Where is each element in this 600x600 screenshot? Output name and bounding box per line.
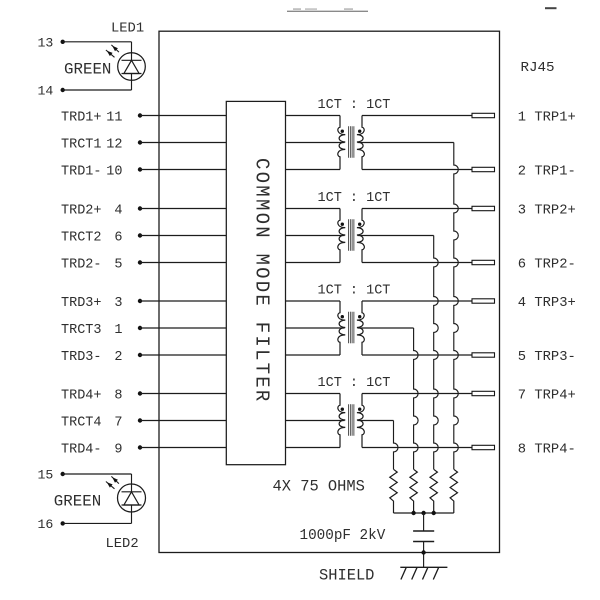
- transformer T4 secondary winding: [357, 394, 364, 448]
- RJ45 module outline box: [159, 31, 500, 552]
- label 1CT : 1CT (T2): [318, 191, 391, 206]
- wire LED1 to pin 14: [63, 80, 132, 90]
- pin label 7 TRP4+: [518, 389, 576, 404]
- T3 secondary phase dot: [358, 315, 361, 318]
- bus wire T1 tap down to resistor (with hops): [454, 143, 459, 470]
- svg-text:1CT : 1CT: 1CT : 1CT: [318, 376, 391, 391]
- wire TRCT1 to filter box: [140, 142, 226, 144]
- pin TRD4- 9 label: [61, 442, 123, 457]
- wire capacitor to shield node: [423, 542, 425, 568]
- wire pin 15 to LED2: [63, 474, 132, 484]
- svg-text:14: 14: [38, 84, 54, 99]
- svg-text:5: 5: [114, 257, 122, 272]
- wire bus to capacitor C1: [423, 513, 425, 531]
- wire T2 secondary to terminal 6: [362, 262, 472, 264]
- junction dot at module box bottom: [421, 550, 425, 554]
- wire filter box to T1 primary bottom: [286, 169, 341, 171]
- svg-text:COMMON MODE FILTER: COMMON MODE FILTER: [251, 158, 273, 404]
- svg-text:10: 10: [106, 164, 122, 179]
- LED LED1 symbol: [118, 53, 146, 81]
- wire TRD2+ to filter box: [140, 208, 226, 210]
- node dot pin 14: [61, 88, 65, 92]
- pin TRCT4 7 label: [61, 415, 123, 430]
- svg-text:LED2: LED2: [106, 537, 139, 552]
- transformer T3 primary winding: [338, 301, 346, 355]
- transformer T4 core: [349, 404, 354, 436]
- node dot pin 6: [138, 233, 142, 237]
- wire T1 secondary to terminal 1: [362, 115, 472, 117]
- label COMMON MODE FILTER (vertical): [251, 158, 273, 404]
- svg-text:8: 8: [114, 388, 122, 403]
- pin label 5 TRP3-: [518, 350, 576, 365]
- pin label 6 TRP2-: [518, 258, 576, 273]
- terminal pad 5: [472, 353, 495, 357]
- label LED1: [111, 21, 144, 36]
- wire T3 secondary to terminal 5: [362, 354, 472, 356]
- T1 secondary phase dot: [358, 130, 361, 133]
- svg-text:13: 13: [38, 35, 54, 50]
- terminal pad 3: [472, 206, 495, 210]
- svg-text:GREEN: GREEN: [64, 61, 111, 79]
- pin TRD2+ 4 label: [61, 203, 123, 218]
- pin TRD4+ 8 label: [61, 388, 123, 403]
- terminal pad 7: [472, 391, 495, 395]
- junction dot bus/R2: [432, 511, 436, 515]
- common mode filter box U1: [226, 101, 285, 464]
- svg-text:TRD2+: TRD2+: [61, 203, 102, 218]
- pin label 8 TRP4-: [518, 443, 576, 458]
- svg-text:11: 11: [106, 110, 122, 125]
- transformer T1 secondary winding: [357, 116, 364, 170]
- label GREEN (LED1): [64, 61, 111, 79]
- label LED2: [106, 537, 139, 552]
- svg-text:TRD4+: TRD4+: [61, 388, 102, 403]
- wire LED2 to pin 16: [63, 512, 132, 523]
- svg-text:TRCT3: TRCT3: [61, 323, 102, 338]
- pin TRD1+ 11 label: [61, 110, 123, 125]
- wire T4 secondary center tap to bus: [358, 420, 394, 422]
- svg-text:8 TRP4-: 8 TRP4-: [518, 443, 576, 458]
- wire T3 secondary to terminal 4: [362, 300, 472, 302]
- svg-text:GREEN: GREEN: [54, 493, 101, 511]
- label 1000pF 2kV: [300, 528, 386, 544]
- faint header text line: [287, 8, 368, 11]
- svg-text:9: 9: [114, 442, 122, 457]
- wire T1 secondary to terminal 2: [362, 169, 472, 171]
- node dot pin 2: [138, 353, 142, 357]
- wire T3 secondary center tap to bus: [358, 327, 414, 329]
- node dot pin 7: [138, 418, 142, 422]
- node dot pin 5: [138, 260, 142, 264]
- wire resistor common bus: [394, 512, 454, 514]
- resistor 75 ohm #4: [390, 469, 397, 513]
- svg-text:7: 7: [114, 415, 122, 430]
- svg-text:4: 4: [114, 203, 122, 218]
- resistor 75 ohm #2: [430, 469, 437, 513]
- svg-text:1 TRP1+: 1 TRP1+: [518, 111, 576, 126]
- wire filter box to T2 primary bottom: [286, 262, 341, 264]
- transformer T2 primary winding: [338, 209, 346, 263]
- pin TRD3+ 3 label: [61, 296, 123, 311]
- terminal pad 2: [472, 167, 495, 171]
- svg-text:TRCT4: TRCT4: [61, 415, 102, 430]
- label pin 13: [38, 35, 54, 50]
- label SHIELD: [319, 566, 374, 584]
- node dot pin 11: [138, 113, 142, 117]
- T2 secondary phase dot: [358, 223, 361, 226]
- wire filter box to T4 primary center tap: [286, 420, 345, 422]
- pin TRD3- 2 label: [61, 350, 123, 365]
- wire pin 13 to LED1: [63, 42, 132, 53]
- node dot pin 1: [138, 326, 142, 330]
- LED LED2 symbol: [118, 484, 146, 512]
- svg-text:TRD3+: TRD3+: [61, 296, 102, 311]
- svg-text:TRD3-: TRD3-: [61, 350, 102, 365]
- wire filter box to T1 primary top: [286, 115, 341, 117]
- label pin 16: [38, 517, 54, 532]
- svg-text:3: 3: [114, 296, 122, 311]
- svg-text:5 TRP3-: 5 TRP3-: [518, 350, 576, 365]
- wire TRD3+ to filter box: [140, 300, 226, 302]
- wire TRD3- to filter box: [140, 354, 226, 356]
- T4 secondary phase dot: [358, 408, 361, 411]
- svg-text:1CT : 1CT: 1CT : 1CT: [318, 98, 391, 113]
- svg-text:1: 1: [114, 323, 122, 338]
- svg-text:3 TRP2+: 3 TRP2+: [518, 204, 576, 219]
- label RJ45: [521, 60, 555, 76]
- bus wire T4 tap down to resistor (with hops): [394, 421, 399, 470]
- wire filter box to T4 primary bottom: [286, 447, 341, 449]
- transformer T2 core: [349, 219, 354, 251]
- wire T2 secondary center tap to bus: [358, 235, 434, 237]
- transformer T1 core: [349, 126, 354, 158]
- wire filter box to T3 primary center tap: [286, 327, 345, 329]
- wire filter box to T3 primary top: [286, 300, 341, 302]
- svg-text:1000pF 2kV: 1000pF 2kV: [300, 528, 386, 544]
- wire T4 secondary to terminal 7: [362, 393, 472, 395]
- transformer T4 primary winding: [338, 394, 346, 448]
- svg-text:16: 16: [38, 517, 54, 532]
- wire T4 secondary to terminal 8: [362, 447, 472, 449]
- svg-text:TRD4-: TRD4-: [61, 442, 102, 457]
- wire TRD2- to filter box: [140, 262, 226, 264]
- node dot pin 10: [138, 167, 142, 171]
- wire TRCT3 to filter box: [140, 327, 226, 329]
- bus wire T3 tap down to resistor (with hops): [414, 328, 419, 469]
- node dot pin 8: [138, 391, 142, 395]
- pin label 4 TRP3+: [518, 296, 576, 311]
- junction dot bus/cap: [421, 511, 425, 515]
- node dot pin 12: [138, 140, 142, 144]
- wire T1 secondary center tap to bus: [358, 142, 454, 144]
- T2 primary phase dot: [341, 223, 344, 226]
- transformer T3 secondary winding: [357, 301, 364, 355]
- wire filter box to T1 primary center tap: [286, 142, 345, 144]
- pin TRD2- 5 label: [61, 257, 123, 272]
- wire filter box to T3 primary bottom: [286, 354, 341, 356]
- ground symbol (shield): [400, 567, 447, 579]
- svg-text:SHIELD: SHIELD: [319, 566, 374, 584]
- terminal pad 4: [472, 299, 495, 303]
- svg-text:6 TRP2-: 6 TRP2-: [518, 258, 576, 273]
- svg-text:LED1: LED1: [111, 21, 144, 36]
- transformer T1 primary winding: [338, 116, 346, 170]
- svg-text:4 TRP3+: 4 TRP3+: [518, 296, 576, 311]
- svg-text:TRCT2: TRCT2: [61, 230, 102, 245]
- resistor 75 ohm #1: [450, 469, 457, 513]
- svg-text:TRD1-: TRD1-: [61, 164, 102, 179]
- label pin 15: [38, 468, 54, 483]
- T4 primary phase dot: [341, 408, 344, 411]
- terminal pad 1: [472, 113, 495, 117]
- transformer T2 secondary winding: [357, 209, 364, 263]
- label 1CT : 1CT (T4): [318, 376, 391, 391]
- pin TRCT3 1 label: [61, 323, 123, 338]
- label 4X 75 OHMS: [273, 478, 365, 496]
- wire TRCT2 to filter box: [140, 235, 226, 237]
- wire T2 secondary to terminal 3: [362, 208, 472, 210]
- svg-text:TRCT1: TRCT1: [61, 137, 102, 152]
- resistor 75 ohm #3: [410, 469, 417, 513]
- svg-text:4X 75 OHMS: 4X 75 OHMS: [273, 478, 365, 496]
- svg-text:2 TRP1-: 2 TRP1-: [518, 165, 576, 180]
- capacitor C1 1000pF 2kV: [413, 531, 434, 542]
- svg-text:6: 6: [114, 230, 122, 245]
- svg-text:RJ45: RJ45: [521, 60, 555, 76]
- svg-text:15: 15: [38, 468, 54, 483]
- top right dash: [545, 7, 557, 9]
- svg-text:TRD1+: TRD1+: [61, 110, 102, 125]
- node dot pin 3: [138, 299, 142, 303]
- label 1CT : 1CT (T3): [318, 284, 391, 299]
- wire TRCT4 to filter box: [140, 420, 226, 422]
- junction dot bus/R3: [411, 511, 415, 515]
- pin TRCT2 6 label: [61, 230, 123, 245]
- transformer T3 core: [349, 312, 354, 344]
- pin label 1 TRP1+: [518, 111, 576, 126]
- svg-text:1CT : 1CT: 1CT : 1CT: [318, 191, 391, 206]
- pin TRD1- 10 label: [61, 164, 123, 179]
- node dot pin 15: [61, 472, 65, 476]
- LED LED1 light arrows: [106, 45, 119, 57]
- T1 primary phase dot: [341, 130, 344, 133]
- LED LED2 light arrows: [106, 476, 119, 488]
- label 1CT : 1CT (T1): [318, 98, 391, 113]
- node dot pin 4: [138, 206, 142, 210]
- wire filter box to T2 primary top: [286, 208, 341, 210]
- svg-text:TRD2-: TRD2-: [61, 257, 102, 272]
- label pin 14: [38, 84, 54, 99]
- T3 primary phase dot: [341, 315, 344, 318]
- svg-text:2: 2: [114, 350, 122, 365]
- terminal pad 6: [472, 260, 495, 264]
- wire TRD4+ to filter box: [140, 393, 226, 395]
- pin label 3 TRP2+: [518, 204, 576, 219]
- node dot pin 16: [61, 521, 65, 525]
- svg-text:1CT : 1CT: 1CT : 1CT: [318, 284, 391, 299]
- wire filter box to T4 primary top: [286, 393, 341, 395]
- node dot pin 13: [61, 40, 65, 44]
- pin TRCT1 12 label: [61, 137, 123, 152]
- wire TRD1- to filter box: [140, 169, 226, 171]
- pin label 2 TRP1-: [518, 165, 576, 180]
- wire filter box to T2 primary center tap: [286, 235, 345, 237]
- wire TRD4- to filter box: [140, 447, 226, 449]
- svg-text:12: 12: [106, 137, 122, 152]
- svg-text:7 TRP4+: 7 TRP4+: [518, 389, 576, 404]
- terminal pad 8: [472, 445, 495, 449]
- wire TRD1+ to filter box: [140, 115, 226, 117]
- bus wire T2 tap down to resistor (with hops): [434, 236, 439, 470]
- label GREEN (LED2): [54, 493, 101, 511]
- node dot pin 9: [138, 445, 142, 449]
